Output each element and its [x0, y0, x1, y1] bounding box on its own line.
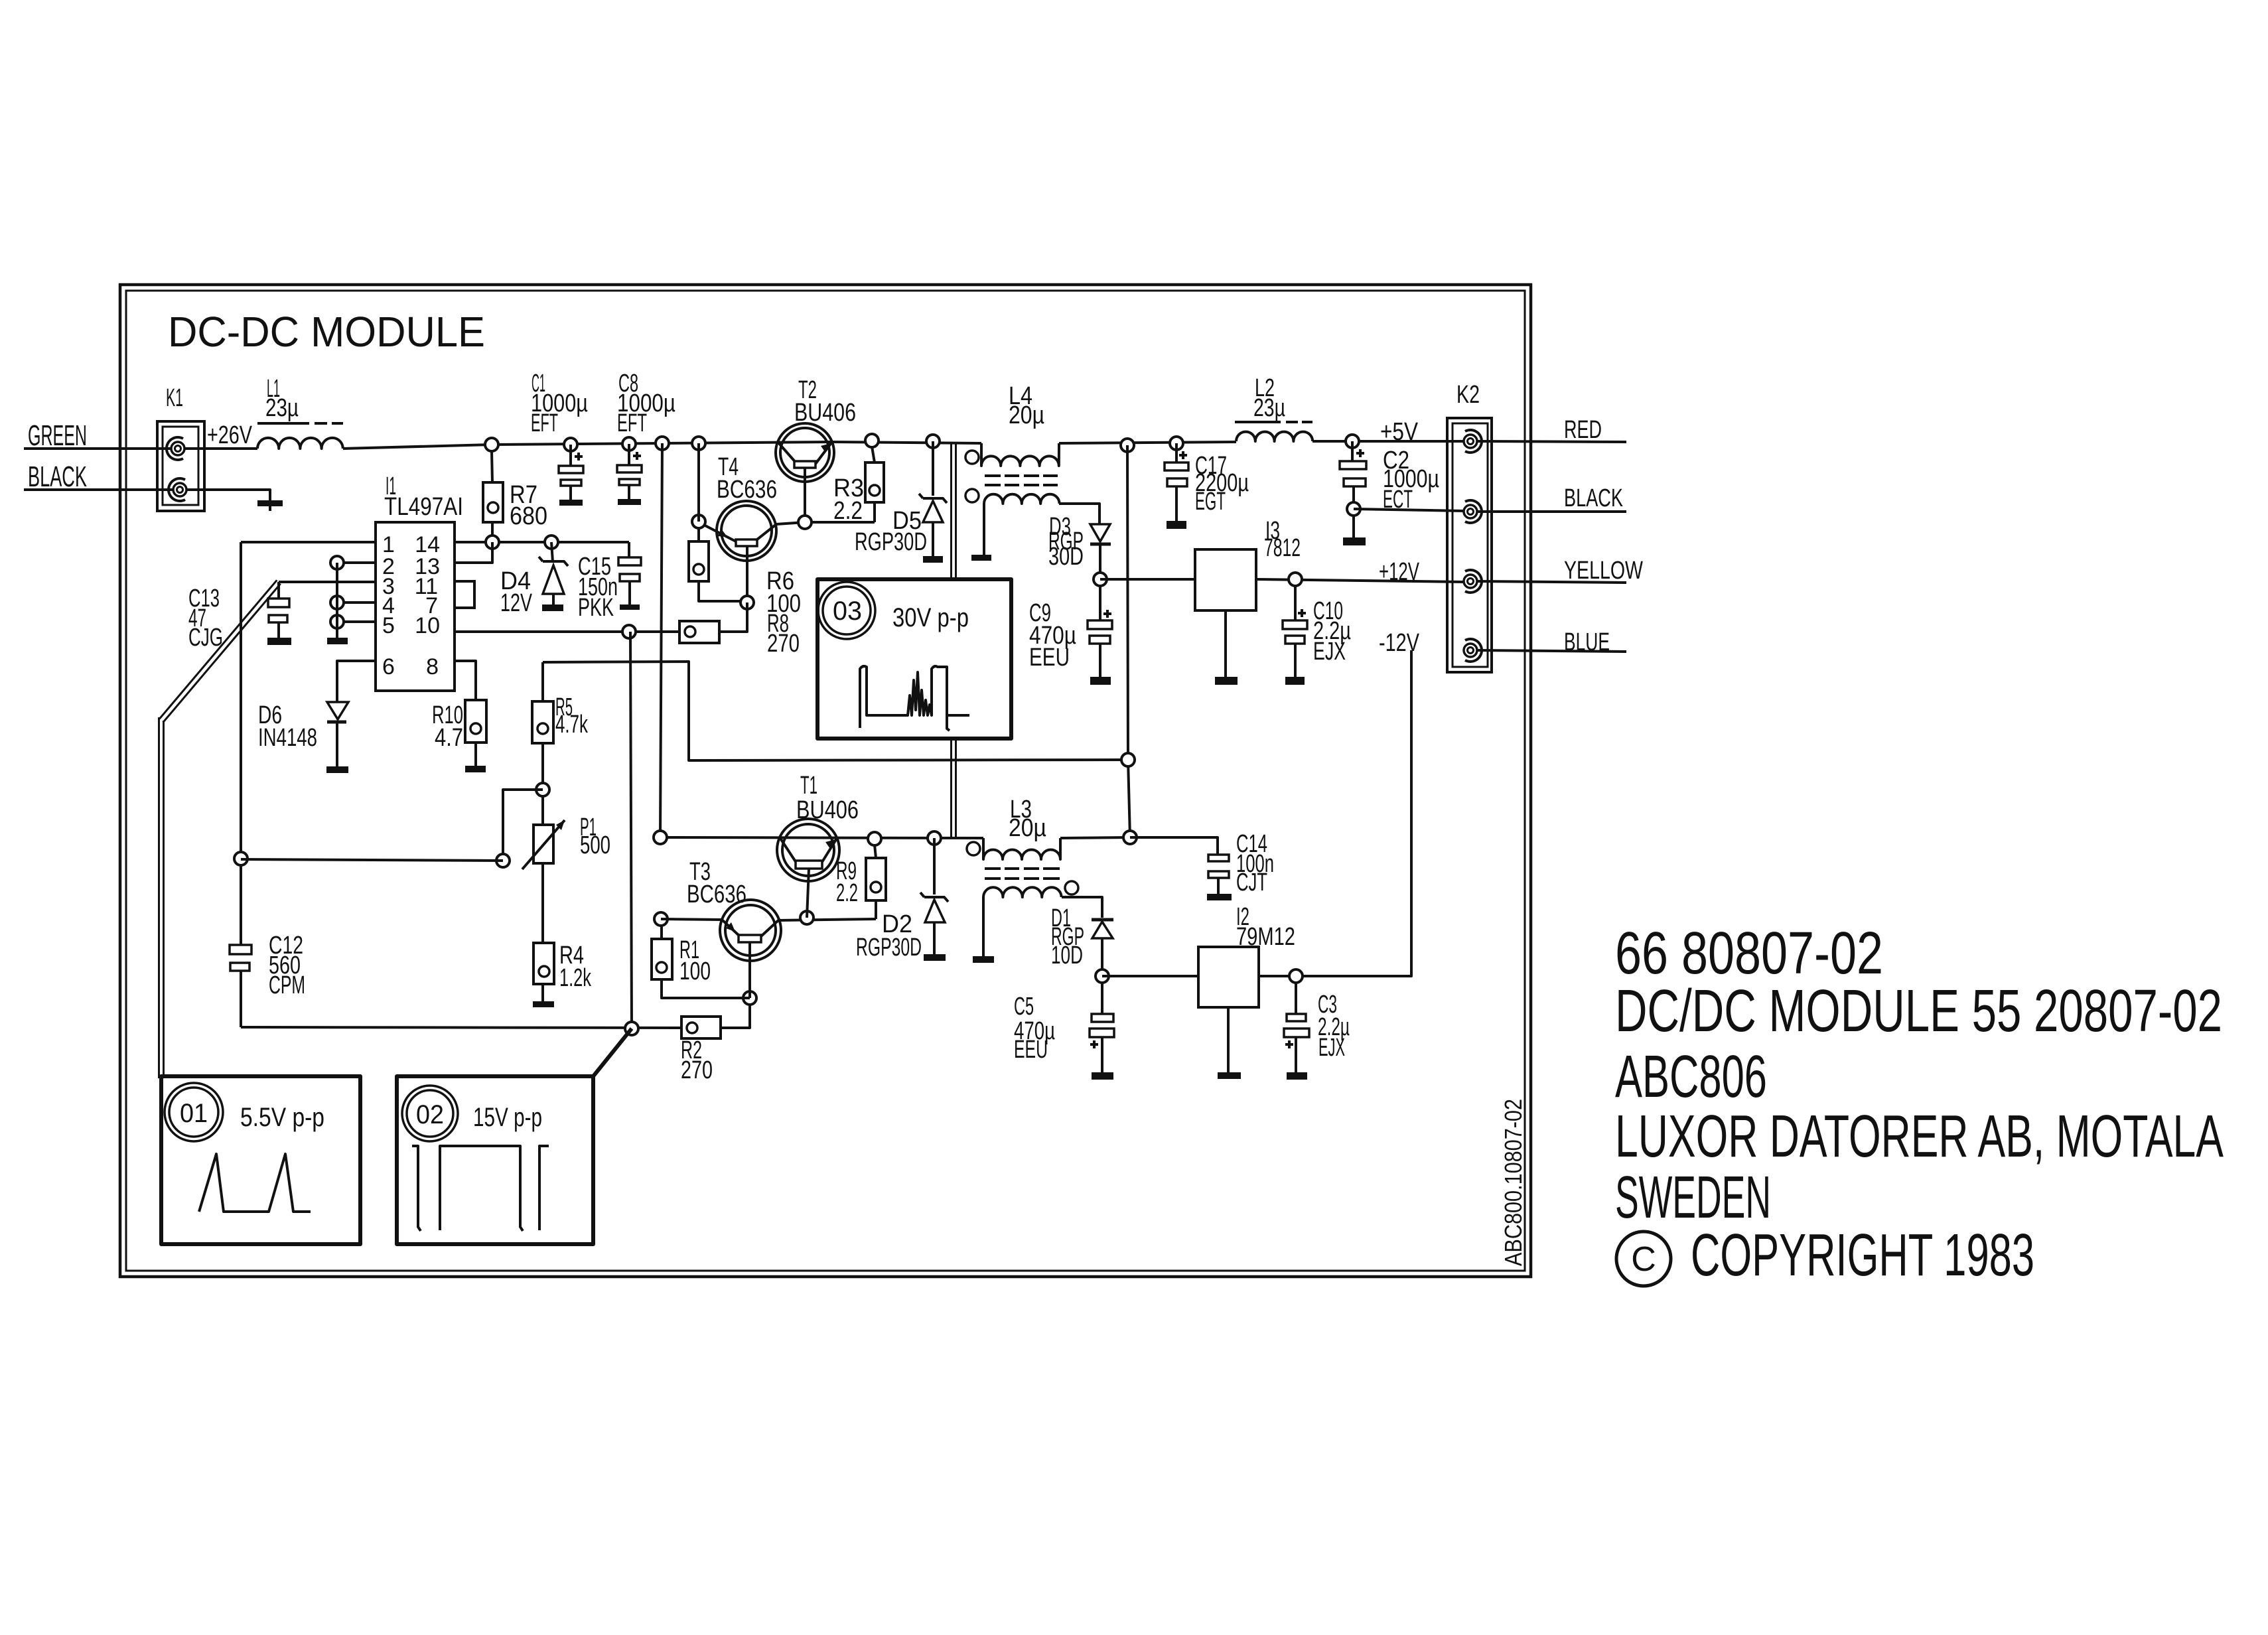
regulator I2 79M12	[1198, 903, 1295, 1079]
svg-text:30D: 30D	[1048, 543, 1084, 571]
transformer L3 secondary	[973, 881, 1102, 963]
wire +26V bus K1 to L1	[184, 447, 257, 450]
wire 0V line to K2 BLACK	[1354, 509, 1464, 511]
svg-text:2.2: 2.2	[836, 879, 858, 907]
svg-text:DC/DC MODULE 55 20807-02: DC/DC MODULE 55 20807-02	[1615, 978, 2222, 1044]
wire bus T2 to L4	[832, 442, 981, 443]
svg-text:RGP30D: RGP30D	[856, 934, 922, 961]
junction wiper rail left	[234, 852, 248, 865]
svg-text:YELLOW: YELLOW	[1564, 557, 1643, 585]
resistor R8 270	[679, 610, 800, 658]
pin 3 wire	[279, 581, 376, 583]
svg-text:23µ: 23µ	[1253, 394, 1285, 422]
svg-text:BLACK: BLACK	[1564, 484, 1623, 512]
svg-text:66 80807-02: 66 80807-02	[1615, 920, 1883, 987]
resistor R7 680	[483, 451, 547, 536]
copyright line	[1616, 1222, 2034, 1289]
wire I2 out	[1259, 975, 1302, 977]
wire D3 junction to I3	[1100, 578, 1195, 581]
junction L3 right / +5V column	[1123, 831, 1137, 844]
svg-text:EFT: EFT	[617, 409, 647, 437]
wire bus drop to T4	[697, 443, 700, 522]
svg-text:ABC806: ABC806	[1615, 1044, 1767, 1110]
junction pin4	[330, 596, 344, 609]
junction R5 bottom / P1 top	[536, 783, 549, 796]
junction D4 top	[545, 535, 558, 549]
svg-text:PKK: PKK	[578, 594, 614, 622]
wire -12V from K2 down to I2	[1302, 650, 1411, 976]
wire BLACK input	[24, 488, 173, 491]
pin 14 wire	[455, 541, 629, 543]
svg-text:EEU: EEU	[1029, 644, 1070, 672]
zener D2 RGP30D	[856, 838, 948, 961]
wire pin1 vertical net	[240, 542, 242, 945]
waveform in O2	[412, 1146, 549, 1231]
wire BLACK output	[1477, 510, 1626, 513]
diode D6 IN4148	[258, 701, 348, 773]
diode D3 RGP 30D	[1048, 513, 1111, 573]
wire R1 bottom to junction	[662, 979, 750, 998]
svg-text:GREEN: GREEN	[28, 419, 87, 452]
transistor T3 BC636	[661, 858, 876, 998]
capacitor C8 1000µ EFT	[617, 370, 675, 505]
wire BLUE output	[1477, 650, 1626, 652]
svg-text:SWEDEN: SWEDEN	[1615, 1165, 1771, 1231]
junction T4 base / R6 / R8	[741, 596, 754, 609]
waveform in O3	[860, 666, 969, 731]
capacitor C9 470µ EEU	[1029, 585, 1112, 685]
capacitor C10 2.2µ EJX	[1283, 585, 1351, 685]
svg-text:EEU: EEU	[1014, 1036, 1048, 1064]
svg-text:+26V: +26V	[207, 421, 252, 449]
svg-text:DC-DC MODULE: DC-DC MODULE	[168, 308, 485, 356]
transistor T2 BU406	[776, 376, 856, 522]
junction T1 base	[800, 911, 814, 924]
junction rail left	[654, 831, 667, 844]
wire rail L3 to C14	[1060, 837, 1130, 838]
resistor R2 270	[681, 998, 750, 1084]
border frame	[120, 285, 1531, 1277]
svg-text:-12V: -12V	[1379, 629, 1419, 657]
capacitor C12 560 CPM	[230, 932, 305, 1027]
ground pins 2-4-5	[327, 638, 348, 644]
resistor R3 2.2	[833, 447, 884, 525]
junction C3 top	[1289, 969, 1303, 983]
svg-text:7812: 7812	[1264, 534, 1301, 562]
svg-text:BC636: BC636	[687, 881, 746, 908]
junction D2 top	[928, 831, 941, 845]
capacitor C13 47 CJG	[188, 582, 291, 652]
ground below C2	[1343, 515, 1366, 545]
junction C2 top	[1346, 435, 1359, 448]
svg-text:270: 270	[767, 630, 800, 658]
svg-text:IN4148: IN4148	[258, 724, 317, 752]
pins 11-7 stub box	[455, 581, 474, 608]
svg-text:BC636: BC636	[717, 476, 777, 504]
svg-text:6: 6	[382, 654, 395, 679]
svg-text:12V: 12V	[500, 589, 532, 617]
wire RED output	[1477, 441, 1626, 442]
junction T4 emitter	[692, 515, 705, 528]
svg-text:CJT: CJT	[1236, 869, 1267, 896]
junction pin5	[330, 615, 344, 628]
oscillogram O3 box 30V p-p	[817, 579, 1011, 739]
svg-text:EJX: EJX	[1313, 638, 1346, 666]
svg-text:CJG: CJG	[188, 624, 223, 652]
wire vertical +5V column	[1127, 445, 1130, 837]
junction D3 bottom	[1094, 573, 1107, 586]
svg-text:C5: C5	[1014, 993, 1034, 1021]
svg-text:500: 500	[580, 831, 610, 859]
wire T1 collector rail	[660, 837, 983, 838]
wire bus L4 to L2	[1059, 442, 1236, 443]
oscillogram O2 box 15V p-p	[397, 1076, 593, 1244]
capacitor C14 100n CJT	[1130, 830, 1274, 900]
zener D4 12V	[500, 542, 568, 617]
connector K1	[157, 384, 204, 511]
junction T3 emitter / R1 / R2	[743, 991, 756, 1005]
svg-text:EJX: EJX	[1318, 1034, 1345, 1062]
svg-text:1.2k: 1.2k	[559, 964, 592, 992]
pin 2 wire	[337, 561, 376, 564]
inductor L1 23µ	[257, 375, 343, 449]
svg-text:8: 8	[426, 654, 439, 679]
junction sense wire / +5V column	[1121, 753, 1135, 766]
svg-text:10: 10	[415, 613, 440, 638]
junction R3 top	[865, 434, 879, 447]
wire D1 junction to I2	[1102, 975, 1198, 977]
wire pins 2-4-5 to ground	[336, 563, 338, 638]
wire I3 out to K2 +12V	[1256, 579, 1464, 582]
svg-text:BLACK: BLACK	[28, 461, 87, 493]
svg-text:RGP30D: RGP30D	[855, 528, 927, 556]
svg-text:C: C	[1631, 1240, 1656, 1279]
svg-text:680: 680	[510, 502, 547, 530]
svg-text:20µ: 20µ	[1009, 401, 1044, 429]
wire junction down to R8	[719, 603, 747, 632]
capacitor C5 470µ EEU	[1014, 982, 1114, 1080]
wire thick O3 probe lower	[952, 739, 956, 838]
IC I1 TL497AI	[376, 472, 463, 691]
junction C10 top	[1289, 573, 1302, 586]
svg-text:+12V: +12V	[1379, 558, 1419, 586]
svg-text:EFT: EFT	[531, 409, 558, 437]
resistor R10 4.7	[432, 700, 486, 772]
regulator I3 7812	[1195, 517, 1301, 685]
resistor R9 2.2	[836, 845, 886, 919]
svg-text:15V p-p: 15V p-p	[473, 1103, 542, 1132]
wire +5V L2 to K2	[1312, 440, 1464, 443]
potentiometer P1 500	[522, 796, 610, 943]
capacitor C1 1000µ EFT	[531, 370, 588, 506]
svg-text:30V p-p: 30V p-p	[892, 603, 969, 632]
wire T4 collector to R3 bottom	[805, 521, 875, 524]
svg-text:BU406: BU406	[796, 796, 859, 824]
diode D1 RGP 10D	[1051, 904, 1113, 976]
capacitor C2 1000µ ECT	[1340, 441, 1439, 514]
waveform in O1	[199, 1154, 311, 1212]
svg-text:TL497AI: TL497AI	[384, 493, 463, 521]
svg-text:100: 100	[679, 958, 711, 985]
svg-text:LUXOR DATORER AB, MOTALA: LUXOR DATORER AB, MOTALA	[1615, 1103, 2224, 1170]
svg-text:K1: K1	[166, 384, 183, 412]
inductor L2 23µ	[1235, 374, 1312, 441]
junction bus to T3-column	[656, 437, 669, 450]
junction C17 top	[1170, 437, 1183, 450]
svg-text:ABC800.10807-02: ABC800.10807-02	[1500, 1099, 1527, 1266]
pin 1 wire	[241, 541, 376, 543]
wire vertical bus-to-T3 net	[660, 443, 662, 837]
junction L4 right / vertical	[1121, 439, 1134, 452]
junction pin2	[330, 556, 344, 569]
svg-text:5: 5	[382, 613, 395, 638]
svg-text:03: 03	[833, 597, 862, 626]
part number text block	[1615, 920, 2224, 1231]
wire vertical pin10 net	[630, 632, 632, 1029]
resistor R1 100	[652, 919, 711, 985]
svg-text:K2: K2	[1456, 381, 1480, 409]
svg-text:4.7: 4.7	[435, 724, 463, 752]
wire thick diagonal to O2 box	[593, 1029, 632, 1076]
transistor T4 BC636	[699, 453, 805, 603]
svg-text:COPYRIGHT 1983: COPYRIGHT 1983	[1691, 1222, 2034, 1289]
junction C8 top	[622, 437, 636, 451]
junction T3 base	[654, 912, 668, 926]
connector K2	[1447, 381, 1492, 672]
transformer L4 secondary	[965, 489, 1099, 561]
pin 6 wire	[337, 661, 376, 702]
svg-text:+5V: +5V	[1380, 418, 1419, 446]
svg-text:BU406: BU406	[794, 399, 856, 427]
capacitor C3 2.2µ EJX	[1284, 982, 1350, 1080]
transistor T1 BU406	[777, 772, 859, 918]
wire thick diagonal pin3 net	[159, 580, 280, 722]
wire ground rail bottom	[241, 1027, 681, 1028]
pin 13 wire	[455, 542, 492, 563]
svg-text:20µ: 20µ	[1009, 814, 1046, 842]
svg-text:5.5V p-p: 5.5V p-p	[240, 1103, 324, 1132]
wire YELLOW output	[1477, 581, 1626, 583]
junction P1 wiper	[496, 854, 510, 867]
wire wiper rail	[241, 859, 503, 861]
svg-text:RED: RED	[1564, 416, 1602, 444]
pin 8 wire	[455, 661, 476, 700]
transformer L4 core	[985, 476, 1058, 485]
junction R7 bottom	[486, 535, 499, 549]
svg-text:EGT: EGT	[1195, 488, 1226, 516]
wire K1 pin2 to ground	[186, 490, 270, 500]
pin 4 wire	[337, 601, 376, 604]
svg-text:02: 02	[416, 1100, 444, 1129]
wire thick vertical to O1 box	[159, 717, 164, 1078]
capacitor C17 2200µ EGT	[1165, 443, 1249, 529]
ground below K1	[257, 500, 283, 511]
junction rail / pin10 column	[625, 1022, 638, 1035]
resistor R6 100	[689, 528, 801, 618]
capacitor C15 150n PKK	[578, 542, 641, 622]
wire junction to wiper column	[503, 790, 543, 861]
oscillogram O1 box 5.5V p-p	[161, 1076, 360, 1244]
junction R7 top	[485, 438, 498, 451]
svg-text:01: 01	[180, 1099, 208, 1128]
junction C2 bottom on 0V line	[1347, 502, 1360, 516]
junction bus to T4-column	[692, 437, 705, 450]
transformer L3 core	[985, 869, 1060, 879]
svg-text:2.2: 2.2	[833, 497, 863, 525]
svg-text:79M12: 79M12	[1236, 923, 1295, 951]
svg-text:CPM: CPM	[269, 971, 305, 999]
junction pin10 column	[622, 625, 636, 638]
wire thick O3 probe upper	[952, 442, 956, 579]
junction R9 top	[868, 832, 881, 845]
junction C1 top	[564, 438, 577, 451]
transformer L3 20µ primary	[967, 796, 1060, 859]
resistor R5 4.7k	[532, 662, 589, 790]
junction D5 top	[926, 435, 940, 448]
junction D1 bottom	[1096, 969, 1109, 983]
pin 10 wire	[455, 630, 679, 633]
zener D5 RGP30D	[855, 441, 947, 563]
svg-text:T1: T1	[800, 772, 817, 800]
pin 5 wire	[337, 620, 376, 623]
wire +12V sense to R5	[543, 662, 1128, 760]
junction T2 base	[798, 516, 812, 529]
resistor R4 1.2k	[533, 942, 592, 1007]
svg-text:23µ: 23µ	[265, 394, 299, 422]
wire +26V bus L1 to T2	[343, 445, 492, 449]
svg-text:10D: 10D	[1051, 942, 1083, 969]
svg-text:BLUE: BLUE	[1564, 628, 1610, 656]
svg-text:4.7k: 4.7k	[555, 711, 589, 739]
wire GREEN input	[24, 447, 171, 450]
transformer L4 20µ primary	[965, 382, 1059, 466]
svg-text:270: 270	[681, 1056, 713, 1084]
